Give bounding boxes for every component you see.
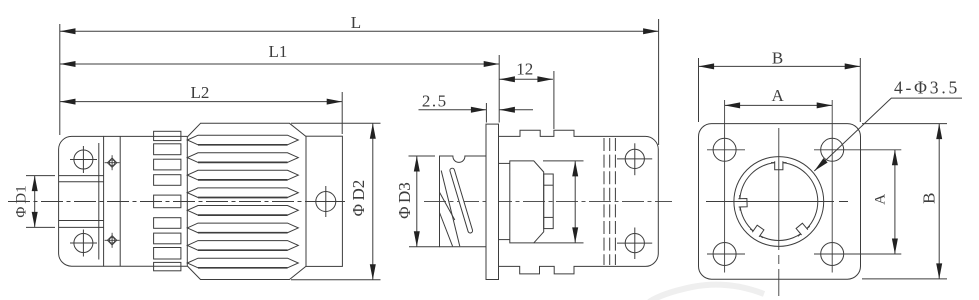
square flange (699, 124, 861, 280)
key notch bottom-right (793, 221, 811, 239)
watermark swoosh (649, 285, 764, 300)
coupling nut outline (187, 123, 306, 279)
insert nose line top (544, 184, 554, 186)
center horizontal line (706, 201, 853, 203)
hole column line right (831, 100, 833, 273)
ext line 2.5 left (485, 103, 487, 123)
knurl ridge 1 (187, 135, 298, 145)
D3 ext top (409, 155, 436, 157)
inner shell circle (740, 163, 818, 241)
D1 silhouette bottom outer (26, 226, 104, 228)
svg-text:Φ D1: Φ D1 (14, 185, 30, 217)
centerline (424, 200, 672, 202)
D1 silhouette bottom inner (59, 220, 104, 222)
dim L1 line (60, 63, 499, 65)
svg-text:L: L (351, 13, 361, 32)
knurl ridge 5 (187, 206, 298, 216)
ext line left (x=60) (59, 24, 61, 135)
centerline (8, 201, 345, 203)
D1 silhouette top outer (26, 175, 104, 177)
position target symbol bottom (105, 233, 120, 248)
dim B top ext left (698, 58, 700, 122)
ext line L right (658, 19, 660, 145)
bore line bottom (499, 239, 510, 241)
bottom edge to nut (104, 265, 188, 267)
hole TR (821, 138, 844, 161)
bore line top (499, 162, 510, 164)
svg-text:2.5: 2.5 (422, 92, 448, 111)
bayonet line A (441, 171, 460, 247)
svg-text:Φ D2: Φ D2 (349, 180, 368, 217)
svg-text:4-Φ3.5: 4-Φ3.5 (894, 78, 960, 98)
dim B top line (699, 65, 861, 67)
knurl ridge 6 (187, 223, 298, 233)
mounting flange plate (486, 124, 499, 279)
hole column line left (724, 100, 726, 273)
dim 12 line (499, 78, 553, 80)
flange hole bottom (70, 230, 97, 257)
D2 ext top (291, 122, 381, 124)
svg-text:B: B (772, 49, 783, 68)
flange hole top (70, 146, 97, 173)
svg-text:12: 12 (516, 60, 533, 79)
thread dashed lines (604, 138, 615, 265)
front flange outline (59, 136, 104, 266)
svg-text:L2: L2 (191, 83, 210, 102)
svg-text:A: A (873, 194, 889, 205)
svg-text:Φ D3: Φ D3 (395, 182, 414, 219)
rear body outline (499, 130, 659, 274)
hole row lines top (707, 149, 901, 151)
knurl ridge 8 (187, 258, 298, 268)
rear flange hole top (617, 143, 652, 175)
knurl ridge 3 (187, 170, 298, 180)
dim L line (60, 30, 659, 32)
knurl ridge 2 (187, 153, 298, 163)
key notch bottom-left (749, 223, 768, 240)
dim A top line (725, 104, 833, 106)
shell outline with key notch (440, 156, 487, 247)
ext line 12 right (553, 71, 555, 129)
hole row lines bottom (707, 253, 901, 255)
insert nose line bottom (544, 216, 554, 218)
section vertical line (119, 136, 121, 266)
dim B right ext bottom (862, 278, 947, 280)
dim L2 line (60, 101, 342, 103)
dim A right line (894, 150, 896, 254)
insert block (510, 161, 544, 243)
dim B right ext top (862, 123, 947, 125)
bayonet line B (440, 192, 455, 220)
svg-text:L1: L1 (269, 42, 288, 61)
insert dim ext top (543, 160, 584, 162)
dim 2.5 leader right (499, 109, 533, 111)
rear cylinder (306, 136, 342, 266)
svg-text:B: B (920, 193, 939, 204)
dim D1 (34, 176, 36, 228)
hole BL (713, 243, 736, 266)
dim 2.5 leader left (419, 109, 487, 111)
knurl ridge 4 (187, 188, 298, 198)
ext line L1 right (498, 55, 500, 123)
dim D3 (416, 156, 418, 247)
dim B top ext right (859, 58, 861, 122)
center vertical line (778, 128, 780, 296)
D1 silhouette top inner (59, 181, 104, 183)
knurl ridge 7 (187, 241, 298, 251)
top edge to nut (104, 135, 188, 137)
ext line L2 right (341, 92, 343, 134)
key notch left (737, 195, 748, 211)
dim D2 (372, 123, 374, 279)
bayonet line C (440, 213, 453, 247)
leader 4-phi3.5 (814, 98, 962, 171)
D2 ext bottom (291, 279, 381, 281)
hole TL (713, 138, 736, 161)
svg-text:A: A (771, 86, 784, 105)
insert dim ext bottom (534, 242, 584, 244)
rib stack (154, 131, 181, 270)
rear hole (310, 186, 342, 217)
dim B right line (938, 124, 940, 279)
hole BR (821, 243, 844, 266)
D3 ext bottom (409, 246, 440, 248)
inner vertical line (98, 143, 100, 260)
insert dim line (574, 161, 576, 243)
position target symbol top (105, 155, 120, 170)
insert nose (544, 174, 554, 229)
key notch top (771, 160, 787, 170)
rear flange hole bottom (617, 228, 652, 260)
bayonet slot (449, 168, 473, 234)
outer shell circle (734, 157, 824, 247)
